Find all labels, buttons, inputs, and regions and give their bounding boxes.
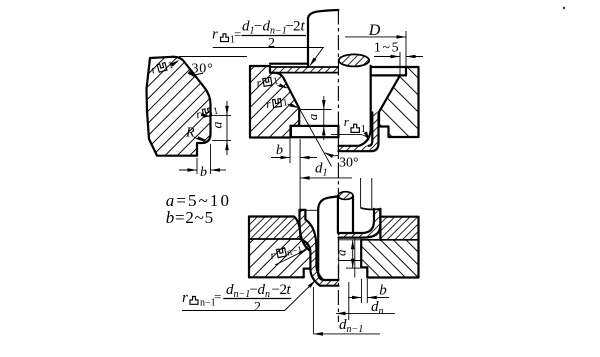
svg-text:a: a xyxy=(305,113,320,120)
svg-text:b: b xyxy=(379,283,387,299)
svg-text:a: a xyxy=(211,122,226,129)
svg-text:1: 1 xyxy=(361,124,366,135)
svg-text:b: b xyxy=(276,143,283,158)
svg-text:=: = xyxy=(234,27,241,42)
svg-text:2: 2 xyxy=(268,36,275,51)
svg-text:r: r xyxy=(212,27,218,43)
svg-text:D: D xyxy=(368,22,381,39)
svg-text:a: a xyxy=(334,249,349,256)
svg-text:30°: 30° xyxy=(192,62,214,77)
svg-text:b=2~5: b=2~5 xyxy=(166,208,214,227)
svg-text:30°: 30° xyxy=(339,155,359,170)
svg-text:=: = xyxy=(214,289,221,304)
svg-text:1~5: 1~5 xyxy=(374,41,400,56)
svg-text:R: R xyxy=(185,126,195,141)
svg-text:r: r xyxy=(182,290,188,306)
svg-text:b: b xyxy=(200,165,207,180)
svg-text:2: 2 xyxy=(254,300,261,315)
